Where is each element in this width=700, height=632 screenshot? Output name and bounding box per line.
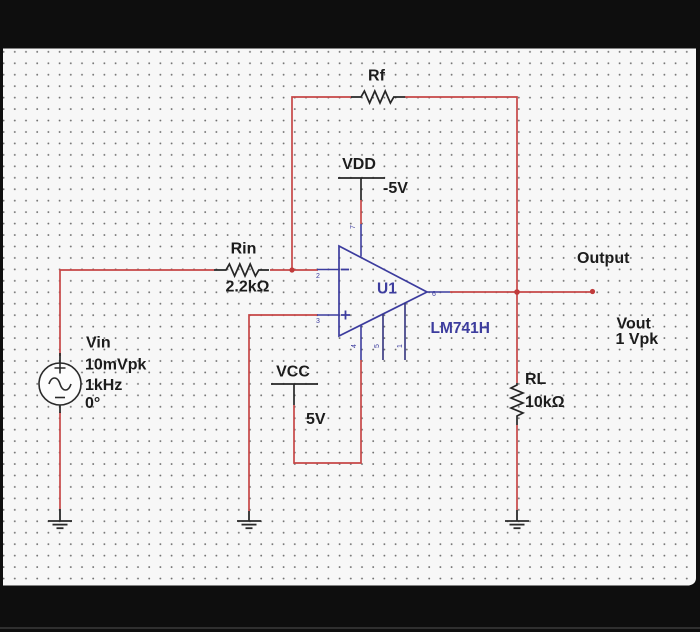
svg-text:Output: Output [577, 250, 630, 267]
svg-text:2: 2 [316, 273, 320, 280]
pin 3 stub [317, 314, 339, 316]
svg-text:3: 3 [316, 318, 320, 325]
svg-text:5V: 5V [306, 411, 326, 428]
svg-text:U1: U1 [377, 281, 397, 298]
resistor Rf [351, 91, 405, 103]
resistor RL [511, 383, 523, 425]
wire: output net [450, 291, 592, 293]
svg-text:-5V: -5V [383, 180, 408, 197]
wire: VCC to op-amp pin 4 [294, 360, 361, 463]
wire: input net from Vin to Rin [60, 270, 214, 356]
wire: Vin bottom to ground [59, 412, 61, 509]
svg-text:2.2kΩ: 2.2kΩ [226, 279, 270, 296]
svg-text:0°: 0° [85, 395, 100, 412]
svg-text:10kΩ: 10kΩ [525, 394, 565, 411]
pin 2 stub [317, 269, 339, 271]
svg-text:1 Vpk: 1 Vpk [616, 331, 659, 348]
svg-text:VCC: VCC [276, 364, 310, 381]
wire: non-inverting input to ground [249, 315, 318, 511]
svg-text:LM741H: LM741H [431, 320, 490, 337]
svg-text:1kHz: 1kHz [85, 377, 122, 394]
resistor Rin [214, 264, 269, 276]
svg-text:Rin: Rin [231, 241, 257, 258]
wire: feedback top right + right vertical down to RL [405, 97, 517, 383]
rounded notch at workspace bottom-right corner [689, 578, 696, 586]
svg-text:RL: RL [525, 371, 547, 388]
svg-text:10mVpk: 10mVpk [85, 357, 146, 374]
wire: RL bottom to ground [516, 425, 518, 510]
svg-text:VDD: VDD [342, 156, 376, 173]
svg-text:1: 1 [397, 344, 404, 348]
svg-text:4: 4 [351, 344, 358, 348]
pin 1 stub [404, 303, 406, 360]
bottom window edge line [0, 627, 700, 629]
ground (non-inverting input) [237, 511, 261, 528]
op-amp U1 [339, 246, 427, 336]
ground (RL) [505, 510, 529, 528]
pin 5 stub [382, 314, 384, 360]
node junction at output/feedback [514, 289, 520, 295]
wire: feedback left vertical [292, 97, 351, 270]
svg-text:Rf: Rf [368, 68, 386, 85]
svg-text:Vout: Vout [617, 316, 652, 333]
svg-text:6: 6 [432, 291, 436, 298]
pin 4 stub (V-) [360, 325, 362, 360]
pin 7 stub (V+) [360, 224, 362, 257]
svg-text:Vin: Vin [86, 335, 111, 352]
pin 6 stub (output) [427, 291, 450, 293]
ground (Vin) [48, 509, 72, 528]
node endpoint Output [590, 289, 595, 294]
wire: Rin right lead to junction and pin 2 [270, 269, 318, 271]
svg-text:5: 5 [374, 344, 381, 348]
wire: VDD to op-amp pin 7 [360, 200, 362, 224]
source Vin [59, 353, 61, 363]
node junction at Rin/feedback [289, 267, 294, 272]
svg-text:7: 7 [350, 225, 357, 229]
